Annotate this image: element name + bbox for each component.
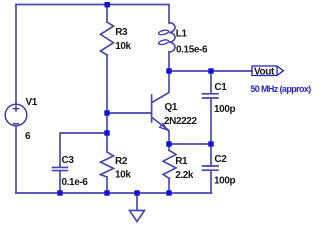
wire bottom ground rail	[16, 192, 212, 194]
transistor Q1 collector diagonal	[152, 71, 169, 103]
svg-text:C3: C3	[62, 155, 75, 166]
svg-text:100p: 100p	[214, 104, 235, 115]
wire C3 bottom	[59, 171, 61, 193]
wire C1 bottom stem	[210, 99, 212, 144]
node collector rail / L1	[166, 68, 171, 73]
wire C2 top stem	[210, 144, 212, 166]
V1 plus sign	[13, 105, 20, 112]
wire L1 bottom stem	[168, 52, 170, 71]
svg-text:10k: 10k	[115, 41, 131, 52]
svg-text:6: 6	[25, 131, 31, 142]
svg-text:R3: R3	[115, 27, 128, 38]
svg-text:Q1: Q1	[165, 102, 178, 113]
junction nodes	[57, 2, 213, 196]
node emitter rail / C2	[208, 141, 213, 146]
wire node B to C3	[60, 133, 107, 167]
transistor Q1 emitter arrowhead	[160, 123, 167, 129]
node R2/C3 tee	[104, 130, 109, 135]
resistor R2	[101, 152, 114, 177]
wire base node to Q1 base	[107, 112, 151, 114]
node rail / R1	[166, 190, 171, 195]
capacitor C3	[53, 167, 68, 170]
inductor L1 coil arcs	[169, 23, 175, 52]
node collector rail / C1	[208, 68, 213, 73]
wire emitter rail	[169, 143, 211, 145]
wire R3 top stem	[106, 5, 108, 23]
svg-text:0.1e-6: 0.1e-6	[62, 177, 89, 188]
svg-text:Vout: Vout	[254, 67, 275, 78]
svg-text:R2: R2	[115, 156, 128, 167]
wire top rail	[16, 4, 169, 6]
svg-text:50 MHz (approx): 50 MHz (approx)	[250, 84, 311, 94]
wire R1 bottom	[168, 179, 170, 194]
wire C1 top stem	[210, 71, 212, 94]
node rail / C3	[57, 190, 62, 195]
node top rail / R3	[105, 2, 110, 7]
wire R2 bottom	[106, 177, 108, 193]
transistor Q1 emitter diagonal	[152, 118, 169, 145]
node base	[104, 110, 109, 115]
svg-text:C1: C1	[214, 82, 227, 93]
inductor L1 crossover loop 2	[158, 39, 169, 45]
node rail / ground	[134, 190, 139, 195]
wire V1 bottom to ground rail	[15, 126, 17, 194]
capacitor C2	[203, 166, 219, 170]
voltage source V1	[5, 104, 27, 126]
svg-text:L1: L1	[176, 28, 188, 39]
wire collector rail to Vout	[169, 70, 252, 72]
svg-text:100p: 100p	[214, 176, 235, 187]
svg-text:10k: 10k	[115, 169, 131, 180]
wire node B down to R2	[106, 133, 108, 152]
inductor L1 crossover loop 1	[158, 29, 169, 35]
capacitor C1	[203, 94, 219, 98]
resistor R3	[101, 22, 114, 55]
wire R3 bottom to base node	[106, 55, 108, 133]
resistor R1 stems	[168, 144, 170, 151]
wire ground stem	[136, 193, 138, 210]
wire left side down to V1	[15, 5, 17, 105]
node rail / R2	[104, 190, 109, 195]
svg-text:0.15e-6: 0.15e-6	[176, 45, 208, 56]
Vout flag	[252, 66, 284, 76]
V1 minus sign	[13, 123, 20, 125]
node emitter rail / R1	[166, 141, 171, 146]
resistor R1	[163, 151, 176, 179]
wire C2 bottom stem	[210, 171, 212, 193]
svg-text:2N2222: 2N2222	[164, 116, 197, 127]
wire L1 top stem	[168, 5, 170, 24]
svg-text:R1: R1	[175, 156, 188, 167]
ground symbol	[130, 211, 145, 222]
transistor Q1 base bar	[151, 95, 153, 122]
svg-text:C2: C2	[214, 154, 227, 165]
svg-text:V1: V1	[26, 97, 38, 108]
svg-text:2.2k: 2.2k	[175, 170, 194, 181]
